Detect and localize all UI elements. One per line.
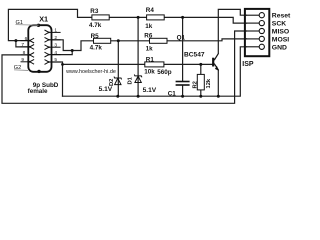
svg-text:ISP: ISP [242,61,254,68]
svg-text:female: female [28,88,48,95]
svg-text:R2: R2 [192,81,198,88]
svg-text:6: 6 [25,36,28,42]
svg-text:8: 8 [23,50,26,56]
svg-text:GND: GND [272,44,287,51]
svg-text:D1: D1 [127,76,133,84]
svg-text:1k: 1k [146,45,154,52]
svg-text:5.1V: 5.1V [99,86,113,93]
svg-text:7: 7 [21,42,24,48]
svg-text:Reset: Reset [272,13,291,20]
svg-text:D2: D2 [109,79,115,86]
svg-text:G1: G1 [16,20,23,26]
svg-text:www.hoelscher-hi.de: www.hoelscher-hi.de [65,69,116,75]
svg-text:R5: R5 [91,33,100,40]
svg-text:1: 1 [54,28,57,34]
svg-text:R3: R3 [90,8,99,15]
svg-text:5.1V: 5.1V [143,87,157,94]
svg-text:3: 3 [54,42,57,48]
svg-text:BC547: BC547 [184,51,205,58]
svg-text:R6: R6 [144,32,153,39]
svg-text:X1: X1 [39,14,48,23]
svg-text:12k: 12k [206,78,212,88]
svg-text:G2: G2 [14,65,21,71]
svg-text:10k: 10k [144,69,155,76]
svg-text:MISO: MISO [272,29,289,36]
svg-text:R4: R4 [146,7,155,14]
svg-text:Q1: Q1 [177,34,186,41]
svg-text:5: 5 [54,57,57,63]
svg-text:4: 4 [54,50,57,56]
svg-text:SCK: SCK [272,21,286,28]
svg-text:560p: 560p [157,69,172,76]
svg-text:9: 9 [21,57,24,63]
svg-text:4.7k: 4.7k [89,22,102,29]
svg-text:1k: 1k [145,23,153,30]
svg-text:R1: R1 [146,56,155,63]
svg-text:4.7k: 4.7k [90,45,103,52]
svg-text:C1: C1 [168,91,177,98]
svg-text:2: 2 [54,35,57,41]
svg-text:MOSI: MOSI [272,36,289,43]
